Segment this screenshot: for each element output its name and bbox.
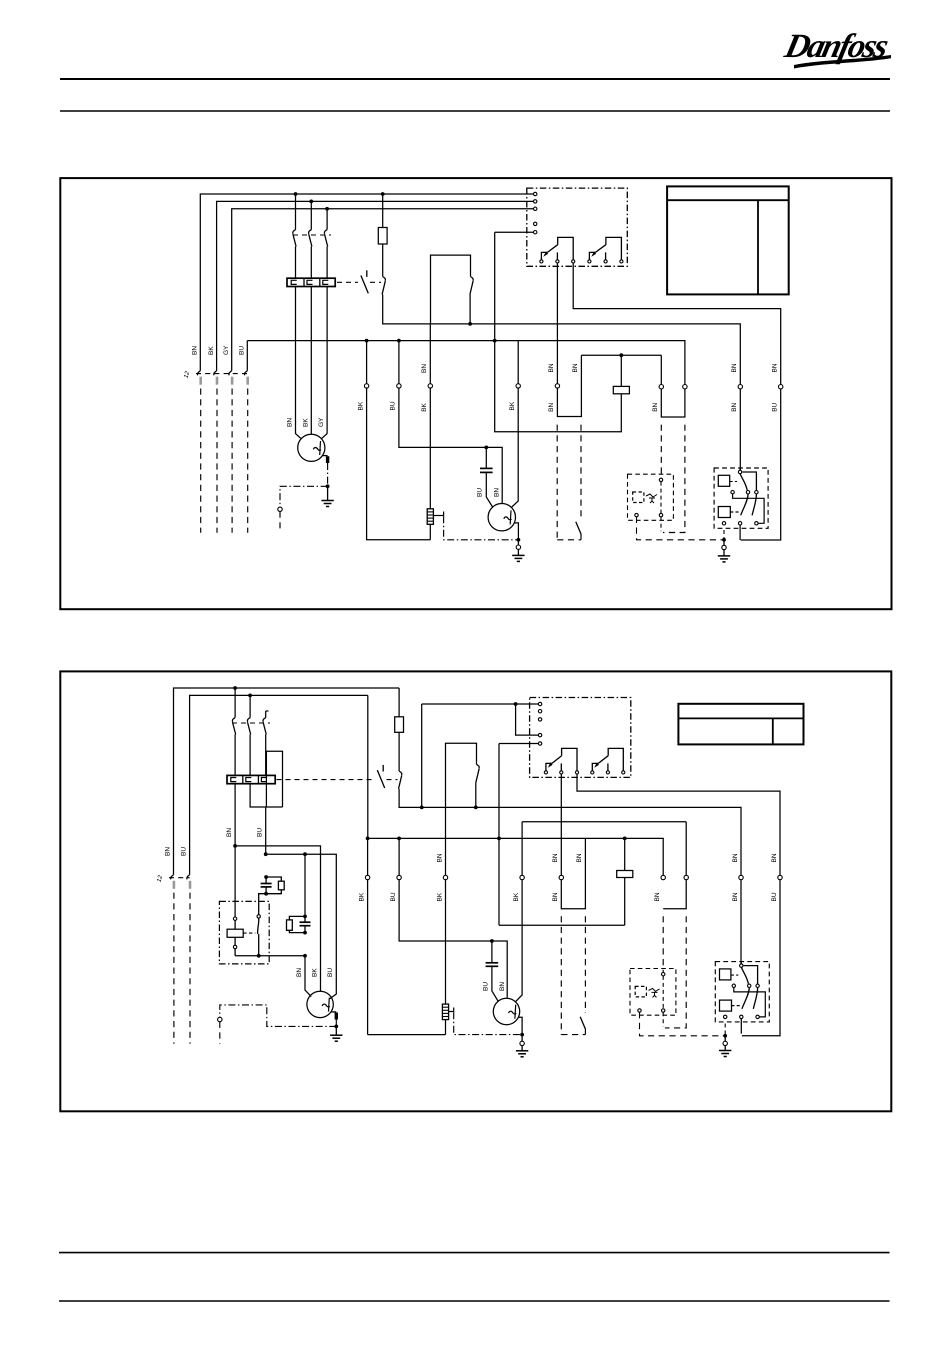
overload relay F1 strip	[287, 278, 335, 286]
start relay blade	[258, 918, 259, 934]
wire to heater d2	[445, 880, 447, 1004]
connector BK1	[364, 384, 368, 388]
relay pin 5 d2	[538, 742, 541, 745]
KP PE dashed	[723, 530, 725, 539]
dashed HP d2	[665, 916, 686, 1028]
start relay pin bottom	[234, 937, 236, 945]
svg-text:BU: BU	[482, 982, 489, 991]
node fan PE junction d2	[334, 1025, 338, 1029]
start relay linkage dashed	[243, 932, 255, 934]
KP ground lead d2	[724, 1046, 726, 1051]
compressor PE step d2	[519, 1017, 523, 1033]
svg-text:BN: BN	[287, 418, 294, 427]
svg-text:BN: BN	[552, 892, 559, 901]
fan ground lead	[327, 486, 329, 500]
ground KP d2	[719, 1050, 731, 1052]
svg-text:BN: BN	[436, 853, 443, 862]
wire heater to rail	[429, 524, 431, 540]
legend table D2	[678, 704, 803, 745]
wire BN U-loop d2	[561, 838, 585, 908]
wire cap to compressor d2	[492, 966, 499, 1002]
svg-text:BN: BN	[296, 968, 303, 977]
wire BN1 U-loop	[557, 355, 581, 416]
wire BK tap	[366, 341, 368, 384]
wire BK into compressor	[511, 388, 518, 507]
wire cap to compressor	[486, 472, 493, 507]
svg-text:BU: BU	[771, 892, 778, 901]
svg-text:BN: BN	[165, 847, 172, 856]
PE plug dashed d2	[219, 1022, 221, 1044]
wire BK comp drop d2	[521, 822, 523, 876]
plug X1 contact 4	[244, 371, 247, 376]
PE plug connector d2	[218, 1017, 222, 1021]
connector BN2	[428, 384, 432, 388]
connector BU d2	[397, 875, 401, 879]
wire L3 GY top rail	[232, 209, 536, 371]
overload manual switch S1	[366, 270, 368, 277]
dashed LP d2	[662, 916, 664, 972]
svg-text:BN: BN	[731, 363, 738, 372]
wire fuse to aux d2	[398, 732, 400, 771]
connector BN far d2	[684, 875, 688, 879]
node bus BU junction d2	[397, 837, 401, 841]
plug X1 contact 1	[197, 371, 200, 376]
crankcase heater R1	[427, 509, 433, 525]
overload trip dashed link	[337, 281, 358, 283]
relay contact 1	[540, 260, 543, 263]
heater clamp d2	[449, 1011, 454, 1013]
wire plug 1 dashed	[200, 389, 202, 533]
comp ground lead d2	[521, 1046, 523, 1051]
svg-text:BN: BN	[654, 892, 661, 901]
svg-text:BU: BU	[181, 847, 188, 856]
relay coil K1 d2	[624, 838, 626, 870]
svg-text:BN: BN	[572, 363, 579, 372]
compressor PE step	[514, 523, 518, 538]
svg-text:BN: BN	[493, 488, 500, 497]
trip dashes 2 d2	[387, 779, 398, 781]
contactor K1 pole 3 d2	[266, 710, 269, 712]
wire relay NO d2	[577, 774, 780, 875]
trip dashed link 2	[370, 281, 381, 283]
wire pole2 under box d2	[250, 784, 282, 807]
plug X1 linkage d2	[169, 877, 190, 879]
fan rail BU d2	[266, 854, 337, 999]
wire BU plug drop	[246, 341, 248, 371]
svg-text:BN: BN	[732, 892, 739, 901]
PE dash-dot to plug	[280, 486, 328, 507]
plug X1 contact 3	[229, 371, 232, 376]
wire relay NO down	[573, 263, 781, 385]
svg-text:BN: BN	[732, 853, 739, 862]
node bus BK tap	[365, 339, 369, 343]
compressor motor M2	[488, 504, 515, 531]
footer rule 2	[59, 1300, 890, 1302]
svg-text:BK: BK	[513, 892, 520, 901]
wire aux down	[383, 295, 741, 385]
node cap junction d2	[490, 939, 494, 943]
connector BN5	[738, 385, 742, 389]
svg-text:BN: BN	[772, 363, 779, 372]
wire BN drop d2	[234, 784, 236, 846]
overload manual switch d2	[382, 765, 384, 772]
connector BK d2	[365, 875, 369, 879]
relay unit A1 dash-dot box	[527, 188, 628, 266]
wire BK tap down d2	[367, 695, 369, 838]
thermostat box B1 d2	[446, 743, 477, 807]
pressure control KP1 d2	[715, 962, 769, 1022]
crankcase heater R1 d2	[442, 1004, 448, 1020]
wire BK into compressor d2	[515, 880, 522, 1002]
pressure top pin d2	[662, 973, 665, 976]
bus N rail d2	[368, 838, 664, 875]
wire to crankcase heater	[429, 388, 431, 509]
node run out d2	[303, 954, 307, 958]
svg-text:BN: BN	[421, 364, 428, 373]
KP PE connector	[723, 540, 725, 546]
compressor PE connector	[517, 540, 519, 545]
node thermostat junction	[468, 322, 472, 326]
wire plug 3 dashed	[231, 389, 233, 533]
wire BU tap	[398, 341, 400, 384]
pressure switch inner box	[633, 492, 644, 503]
dashed LP to pressure box	[660, 425, 662, 479]
node coil-bus junction	[493, 339, 497, 343]
run capacitor C1 d2	[491, 941, 493, 963]
bleed resistor R4 d2	[289, 916, 305, 920]
wire cap to relay contact d2	[259, 894, 266, 915]
svg-text:BN: BN	[771, 853, 778, 862]
wire rail right drop d2	[685, 822, 687, 876]
svg-text:BN: BN	[226, 828, 233, 837]
wire BU right down d2	[742, 880, 780, 1036]
fan PE clamp d2	[331, 1011, 336, 1013]
svg-text:GY: GY	[318, 417, 325, 427]
connector BN3	[659, 385, 663, 389]
relay pin 5	[534, 231, 537, 234]
wire plug 4 dashed	[247, 389, 249, 533]
wire BU tap d2	[398, 838, 400, 875]
PE plug connector	[278, 507, 282, 511]
svg-text:BK: BK	[357, 401, 364, 410]
wire pole3 to fan GY	[322, 287, 328, 439]
second rail d2	[522, 821, 686, 823]
wire plug2 dashed d2	[189, 893, 191, 1044]
connector BK comp d2	[520, 875, 524, 879]
contactor K1 aux contact	[383, 277, 386, 281]
node capacitor junction	[484, 446, 488, 450]
wire relay BN down d2	[560, 774, 562, 875]
legend table D1	[667, 186, 789, 294]
heater clamp	[434, 515, 444, 517]
svg-text:BK: BK	[311, 968, 318, 977]
diagram 2 frame	[60, 671, 891, 1111]
plug contact 2 d2	[187, 875, 190, 880]
relay pin 2 d2	[538, 710, 541, 713]
wire BN3 U-loop	[661, 389, 685, 417]
node bus BK junction d2	[366, 837, 370, 841]
svg-text:BK: BK	[358, 892, 365, 901]
start relay pin top	[233, 917, 236, 920]
pressure bottom pins d2	[638, 1009, 641, 1012]
svg-text:BN: BN	[731, 402, 738, 411]
wire relay rail right BN	[660, 355, 662, 384]
KP PE connector d2	[724, 1036, 726, 1041]
wire BN5 to KP	[739, 389, 741, 470]
overload relay F1 strip d2	[227, 775, 275, 783]
plug contact 1 d2	[171, 875, 174, 880]
wire fuse to aux contact	[382, 244, 384, 277]
fan PE clamp	[323, 455, 328, 457]
contactor K1 linkage d2	[232, 722, 270, 724]
dashed pressure to ground d2	[640, 1012, 725, 1036]
KP PE dashed d2	[724, 1024, 726, 1035]
svg-text:BK: BK	[421, 402, 428, 411]
node pin1 jumper d2	[514, 702, 518, 706]
contactor K1 pole 3	[326, 209, 328, 230]
dashed HP line	[663, 425, 685, 533]
footer rule 1	[59, 1252, 890, 1254]
connector BN rail d2	[661, 875, 665, 879]
fan motor M1	[298, 434, 325, 461]
wire relay common down BN	[556, 263, 558, 384]
node BN-pole1 junction d2	[233, 686, 237, 690]
connector BU2	[779, 385, 783, 389]
svg-text:BK: BK	[436, 892, 443, 901]
ground fan	[321, 500, 333, 502]
dashed stub pin to HP rail	[660, 517, 662, 531]
start relay box R2 d2	[219, 901, 269, 964]
wire pole2 to fan BK	[310, 287, 312, 435]
comp PE connector d2	[521, 1035, 523, 1042]
svg-text:BN: BN	[552, 853, 559, 862]
thermostat contact d2	[477, 764, 480, 768]
connector BK comp	[516, 384, 520, 388]
contactor K1 linkage	[293, 234, 331, 236]
wire BU drop d2	[265, 807, 267, 854]
connector BN5 wire	[739, 384, 741, 386]
svg-text:BU: BU	[477, 488, 484, 497]
fuse F2	[382, 194, 384, 228]
relay pin 1 d2	[538, 702, 541, 705]
svg-text:BN: BN	[548, 402, 555, 411]
KP ground lead	[723, 550, 725, 556]
svg-text:BU: BU	[257, 828, 264, 837]
wire aux to rail d2	[399, 789, 741, 875]
pressure symbol d2	[649, 988, 660, 997]
pressure switch B2 box d2	[630, 969, 676, 1016]
pressure switch symbol	[646, 494, 657, 503]
relay unit A1 box d2	[530, 698, 631, 778]
fan motor M1 d2	[307, 991, 333, 1017]
wire BK down to heater rail	[367, 388, 431, 540]
pressure switch bottom pins	[635, 513, 638, 516]
wire coil to rail d2	[234, 949, 236, 956]
wire BN into fan d2	[305, 956, 311, 997]
plug X1 linkage	[196, 373, 247, 375]
relay contact 1 d2	[544, 771, 547, 774]
thermostat dashed U d2	[561, 1034, 585, 1036]
run capacitor C3 d2	[304, 854, 306, 916]
node coil junction	[619, 353, 623, 357]
wire BU2 down	[741, 389, 781, 540]
svg-text:BK: BK	[302, 418, 309, 427]
wire pole1 to fan BN	[296, 287, 302, 439]
connector BN heater d2	[443, 875, 447, 879]
thermostat dashed U d1	[557, 539, 581, 541]
node pin5 bus junction d2	[497, 837, 501, 841]
compressor motor M2 d2	[493, 998, 519, 1024]
pressure switch B2 dashed box	[628, 474, 674, 520]
compressor ground lead	[517, 549, 519, 555]
connector BN kp d2	[739, 875, 743, 879]
svg-text:BK: BK	[509, 401, 516, 410]
ground compressor d2	[516, 1050, 528, 1052]
svg-text:BU: BU	[390, 892, 397, 901]
PE plug dashed	[279, 512, 281, 533]
aux box B3 d2	[266, 751, 282, 807]
wire BN to KP d2	[740, 880, 742, 964]
node bus BU tap	[397, 339, 401, 343]
wire BN box drop	[429, 324, 431, 384]
wire BN far U d2	[663, 880, 686, 909]
plug X1 contact 2	[214, 371, 217, 376]
thermostat blade d2	[580, 1017, 585, 1030]
connector circle BN1	[555, 384, 559, 388]
relay pin 4	[534, 222, 537, 225]
wire L1 BN top rail	[200, 194, 535, 371]
pressure inner box d2	[635, 986, 646, 997]
wire plug 2 dashed	[216, 389, 218, 533]
node cap2 tap d2	[303, 852, 307, 856]
contactor K1 pole 2	[310, 201, 312, 229]
relay pin 2	[534, 200, 537, 203]
ground KP	[718, 555, 730, 557]
wire pin5 feed d2	[499, 743, 538, 745]
node KP PE junction d2	[723, 1034, 727, 1038]
relay contact 2	[588, 260, 591, 263]
relay contact 2 d2	[591, 771, 594, 774]
node comp PE junction d2	[520, 1033, 524, 1037]
dashed pressure to ground rail	[637, 517, 723, 540]
pressure switch top pin	[659, 478, 662, 481]
wire N BU rail d2	[190, 695, 368, 874]
svg-text:GY: GY	[223, 345, 230, 355]
svg-text:BU: BU	[327, 968, 334, 977]
node cap bottom d2	[264, 892, 268, 896]
start relay coil	[234, 920, 236, 929]
fan rail BN-BK d2	[235, 846, 320, 992]
diagram 1 frame	[60, 178, 891, 609]
node B1 junction d2	[474, 806, 478, 810]
node fan PE junction	[326, 484, 330, 488]
connector BN rly d2	[559, 875, 563, 879]
wire BU to cap rail d2	[399, 880, 507, 998]
wire L BN rail d2	[174, 688, 400, 875]
Danfoss logo	[780, 27, 892, 68]
node start out d2	[257, 954, 261, 958]
wire BK to heater rail d2	[367, 880, 369, 1035]
node pin1 drop d2	[420, 806, 424, 810]
thermostat dashed pair d1	[556, 425, 558, 540]
svg-text:BK: BK	[208, 346, 215, 355]
fan PE dash-dot d2	[335, 1020, 337, 1026]
thermostat contact	[471, 277, 474, 281]
ground compressor	[512, 554, 524, 556]
contactor K1 pole 1	[295, 194, 297, 230]
svg-text:BN: BN	[576, 853, 583, 862]
wire box to BN circle d2	[445, 807, 447, 875]
bleed resistor R3 d2	[266, 877, 281, 881]
dashed stub pin to HP rail d2	[662, 1012, 664, 1026]
wire L2 BK top rail	[217, 201, 536, 370]
relay pin 1	[534, 192, 537, 195]
wire pin5 feed	[495, 231, 534, 233]
wire coil return	[495, 232, 622, 432]
wire heater to rail d2	[445, 1020, 447, 1035]
header rule 2	[60, 110, 890, 112]
node fuse junction	[381, 192, 385, 196]
contactor K1 pole 1 d2	[234, 688, 236, 718]
node KP PE junction	[722, 538, 726, 542]
contactor K1 pole 2 d2	[249, 695, 251, 717]
svg-text:BN: BN	[652, 402, 659, 411]
connector BU1	[397, 384, 401, 388]
relay coil K1	[620, 355, 622, 386]
PE dash-dot route d2	[220, 1005, 336, 1027]
wire BU to capacitor rail	[399, 388, 502, 503]
heater PE dash-dot d2	[454, 1012, 522, 1034]
node BU rail junction d2	[264, 852, 268, 856]
wire plug1 dashed d2	[173, 893, 175, 1044]
connector BU right d2	[778, 875, 782, 879]
coil feed rail	[581, 354, 661, 356]
node L1-pole1 junction	[294, 192, 298, 196]
heater PE dash-dot	[444, 516, 517, 540]
start relay contact pin	[257, 915, 260, 918]
wire BN into start relay d2	[234, 846, 236, 917]
thermostat box B1	[431, 255, 471, 324]
svg-text:BU: BU	[390, 401, 397, 410]
node L2-pole2 junction	[309, 200, 313, 204]
fan ground lead d2	[335, 1026, 337, 1035]
overload trip dashes d2	[277, 779, 375, 781]
fan PE dash-dot	[327, 463, 329, 485]
svg-text:BU: BU	[239, 346, 246, 355]
relay pin 4 d2	[538, 733, 541, 736]
ground fan d2	[330, 1034, 342, 1036]
fuse F2 d2	[398, 688, 400, 717]
pin1-pin4 jumper d2	[516, 704, 539, 735]
start capacitor C2 d2	[264, 875, 268, 879]
thermostat blade d1	[576, 522, 581, 535]
start bottom rail d2	[235, 955, 305, 957]
heater rail from BK d2	[368, 1034, 446, 1036]
svg-text:BN: BN	[499, 982, 506, 991]
wire pin5 to bus d2	[498, 744, 500, 926]
node coil bus junction d2	[623, 837, 627, 841]
run capacitor C1	[485, 447, 487, 468]
wire pin1 drop d2	[421, 704, 423, 807]
wire pin1 feed d2	[422, 703, 539, 705]
pressure control KP1	[714, 468, 768, 528]
bus N rail	[247, 341, 685, 385]
coil return rail d2	[499, 924, 625, 926]
node compressor PE junction	[517, 538, 521, 542]
svg-text:BU: BU	[772, 402, 779, 411]
header rule 1	[60, 78, 890, 80]
contactor aux contact d2	[399, 771, 402, 775]
